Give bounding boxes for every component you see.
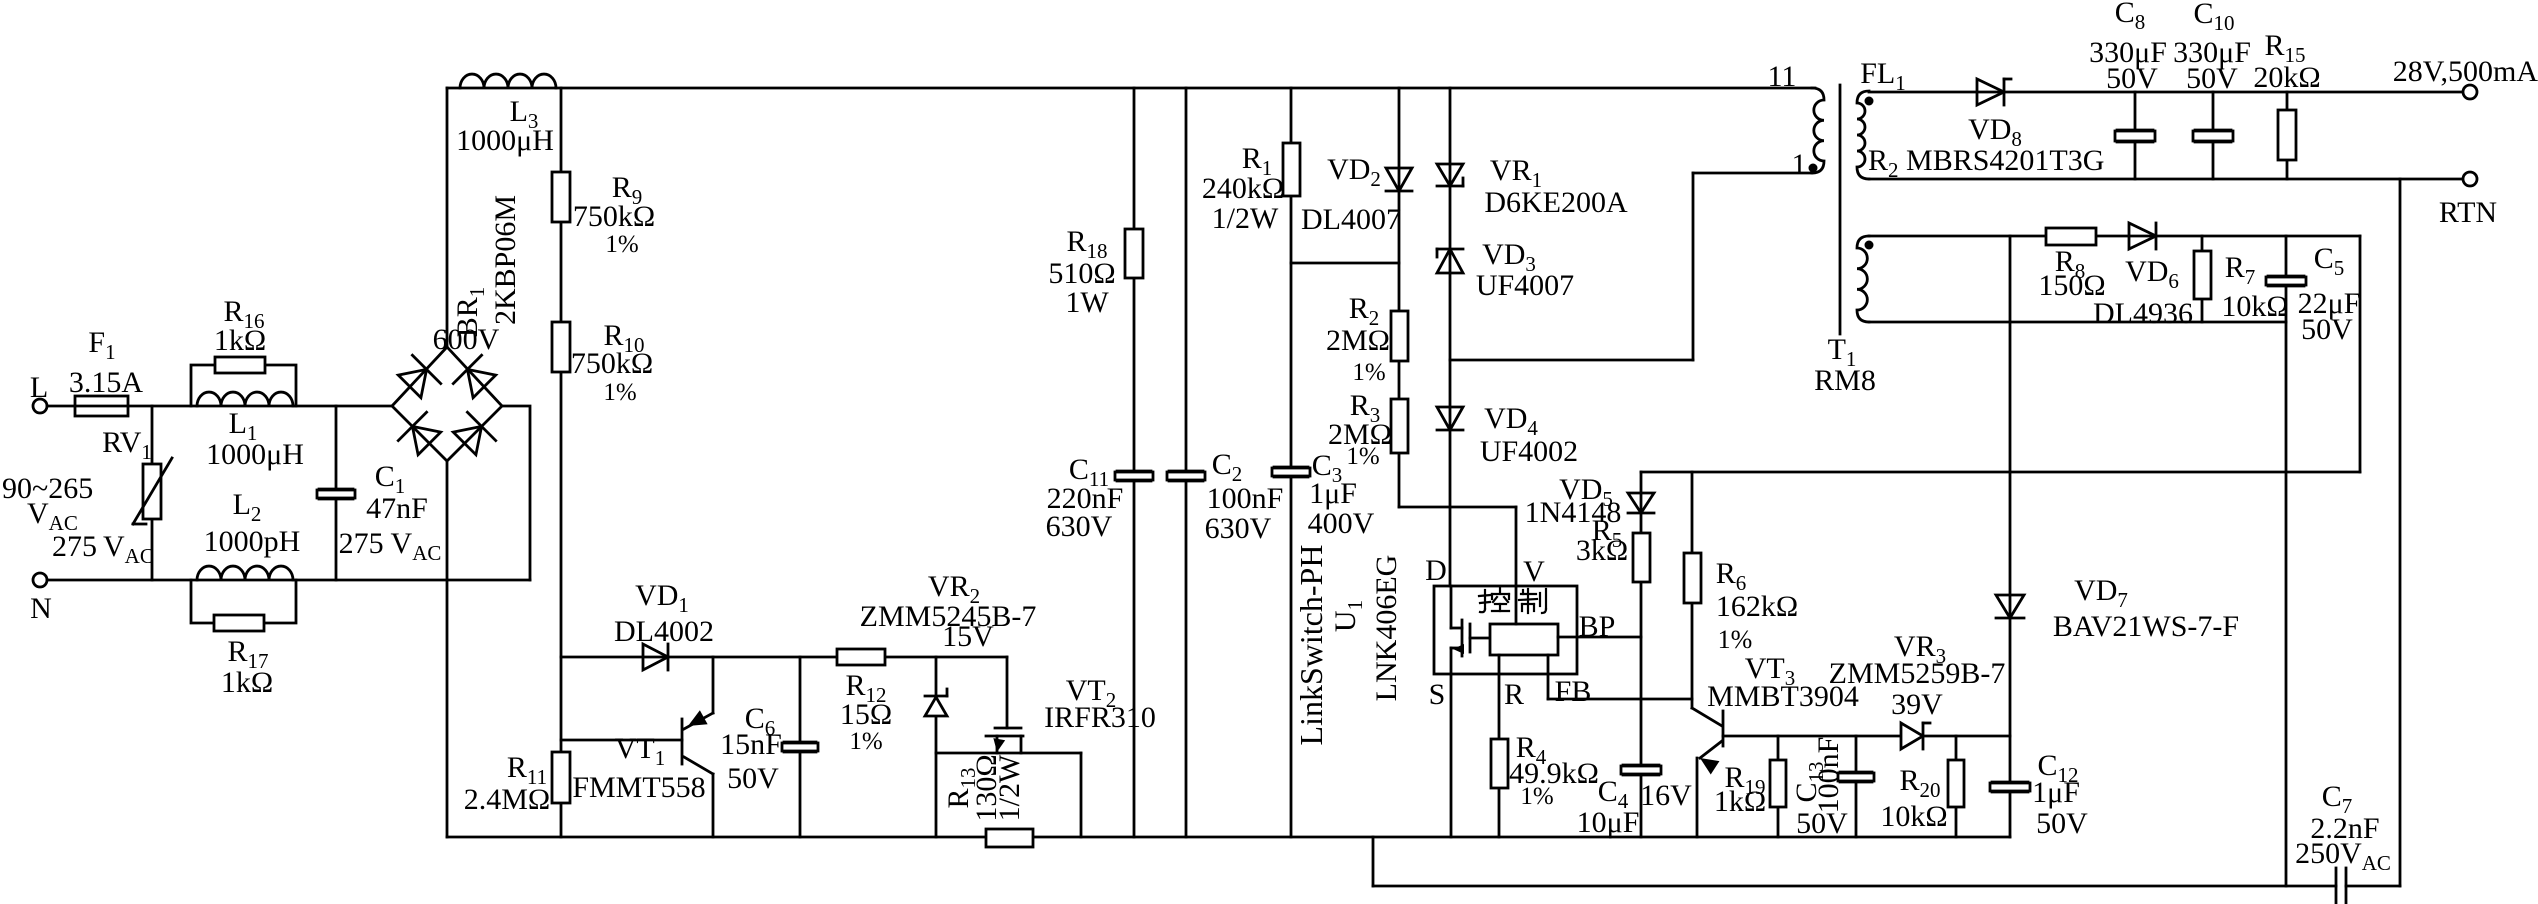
diode VD4 UF4002 [1437, 407, 1463, 430]
transformer FL1 secondary [1857, 91, 1869, 179]
wire C2 chain [1185, 88, 1188, 837]
svg-text:15nF: 15nF [720, 728, 782, 761]
svg-text:275 VAC​: 275 VAC​ [339, 527, 442, 565]
svg-text:2KBP06M: 2KBP06M [489, 195, 522, 325]
wire U1 R pin [1498, 655, 1501, 837]
wire VT1 base [561, 739, 682, 742]
bridge BR1 diodes [395, 355, 440, 400]
varistor RV1 [151, 406, 154, 580]
resistor R9 750k [552, 172, 570, 222]
diode VD7 BAV21WS [1996, 595, 2024, 618]
resistor R1 240k [1283, 143, 1300, 196]
wire U1 FB pin [1547, 655, 1550, 699]
svg-text:2MΩ: 2MΩ [1326, 324, 1390, 357]
svg-text:20kΩ: 20kΩ [2253, 61, 2320, 94]
svg-text:S: S [1429, 678, 1446, 711]
wire R6 chain [1691, 472, 1694, 708]
svg-text:C10​: C10​ [2193, 0, 2234, 35]
svg-text:50V: 50V [2106, 62, 2158, 95]
svg-text:1%: 1% [849, 728, 882, 755]
wire RTN drop [2399, 179, 2402, 886]
resistor R13 130 on rail [986, 829, 1033, 847]
svg-text:1kΩ: 1kΩ [221, 666, 273, 699]
svg-text:400V: 400V [1308, 507, 1375, 540]
svg-text:1000μH: 1000μH [456, 124, 554, 157]
mosfet VT2 IRFR310 [995, 727, 1021, 730]
node FL1 dot [1865, 97, 1874, 106]
wire N riser to bridge [502, 406, 530, 580]
capacitor C7 2.2nF Y-cap [2335, 868, 2338, 904]
capacitor C10 330uF [2212, 92, 2215, 179]
wire U1 BP pin [1558, 636, 1641, 639]
resistor R17 1k bypass [191, 580, 296, 623]
svg-text:RM8: RM8 [1814, 364, 1876, 397]
transistor VT3 MMBT3904 NPN [1722, 711, 1725, 746]
resistor R20 10k [1955, 736, 1958, 837]
capacitor C1 47nF X2 [335, 406, 338, 580]
svg-text:50V: 50V [727, 762, 779, 795]
svg-text:FL1​: FL1​ [1860, 57, 1906, 95]
svg-text:28V,500mA: 28V,500mA [2393, 55, 2538, 88]
svg-text:C2​: C2​ [1212, 448, 1243, 486]
svg-text:1000μH: 1000μH [206, 438, 304, 471]
wire bias top [1869, 235, 2360, 238]
svg-text:1kΩ: 1kΩ [1714, 785, 1766, 818]
svg-text:D6KE200A: D6KE200A [1484, 186, 1628, 219]
svg-text:240kΩ: 240kΩ [1202, 172, 1284, 205]
capacitor C13 100nF [1855, 736, 1858, 837]
diode VD8 MBRS4201T3G [1977, 79, 2004, 105]
svg-text:50V: 50V [1796, 807, 1848, 840]
svg-text:L2​: L2​ [233, 488, 262, 526]
transformer T1 primary [1812, 88, 1824, 173]
inductor L2 [197, 566, 293, 580]
svg-text:R: R [1504, 678, 1524, 711]
fuse F1 3.15A [75, 396, 128, 416]
svg-text:3.15A: 3.15A [69, 366, 144, 399]
svg-text:2.4MΩ: 2.4MΩ [464, 783, 550, 816]
resistor R2 2M [1391, 311, 1408, 361]
svg-text:1μF: 1μF [2032, 776, 2080, 809]
label U1 kongzhi-1 [1479, 588, 1509, 612]
wire feedback row [1641, 471, 2360, 474]
svg-text:1%: 1% [1520, 783, 1553, 810]
zener VR2 ZMM5245B [935, 657, 938, 837]
svg-text:100nF: 100nF [1812, 737, 1845, 814]
resistor R11 2.4M [552, 752, 570, 803]
wire VD3 node to pin1 [1450, 359, 1693, 362]
svg-text:162kΩ: 162kΩ [1716, 590, 1798, 623]
wire VR1 chain [1449, 88, 1452, 586]
resistor R6 162k [1684, 553, 1701, 603]
resistor R8 150 [2046, 228, 2096, 245]
resistor R5 3k [1633, 533, 1650, 582]
resistor R4 49.9k [1491, 739, 1508, 788]
svg-text:C8​: C8​ [2115, 0, 2146, 34]
capacitor C12 1uF [1990, 783, 2030, 791]
wire VD5 chain [1640, 472, 1643, 837]
svg-text:D: D [1425, 554, 1447, 587]
resistor R12 15 [837, 649, 885, 665]
bridge BR1 diamond [392, 347, 502, 461]
resistor R18 510 [1125, 229, 1143, 278]
svg-text:C5​: C5​ [2314, 242, 2345, 280]
wire R1 to VD2 node [1291, 262, 1399, 265]
svg-text:FMMT558: FMMT558 [572, 771, 705, 804]
svg-text:50V: 50V [2036, 807, 2088, 840]
svg-text:L: L [30, 371, 48, 404]
wire RTN line [1869, 178, 2463, 181]
svg-text:1%: 1% [1718, 625, 1753, 654]
svg-text:VD6​: VD6​ [2125, 255, 2179, 293]
capacitor C8 330uF [2134, 92, 2137, 179]
svg-text:U1​: U1​ [1329, 600, 1367, 632]
svg-text:630V: 630V [1046, 510, 1113, 543]
svg-text:R20​: R20​ [1899, 764, 1940, 802]
resistor R15 20k [2286, 92, 2289, 179]
wire R9 chain [560, 88, 563, 837]
svg-text:IRFR310: IRFR310 [1044, 701, 1156, 734]
capacitor C2 100nF [1167, 472, 1205, 480]
transformer core [1839, 85, 1842, 334]
svg-text:RV1​: RV1​ [102, 426, 152, 464]
ic U1 box [1434, 586, 1577, 674]
svg-text:F1​: F1​ [88, 326, 115, 364]
wire VT3 collector row [1723, 735, 1901, 738]
svg-text:1kΩ: 1kΩ [214, 324, 266, 357]
transformer bias winding [1857, 236, 1869, 322]
label U1 kongzhi-2 [1519, 589, 1546, 613]
capacitor C3 1uF [1272, 468, 1310, 476]
svg-text:LNK406EG: LNK406EG [1370, 555, 1403, 702]
svg-text:630V: 630V [1205, 512, 1272, 545]
svg-text:16V: 16V [1640, 779, 1692, 812]
svg-text:47nF: 47nF [366, 492, 428, 525]
svg-text:1W: 1W [1065, 286, 1109, 319]
output terminal RTN [2463, 172, 2477, 186]
svg-text:1%: 1% [1352, 359, 1385, 386]
wire N line [47, 579, 530, 582]
svg-text:11: 11 [1768, 60, 1797, 93]
transistor VT1 FMMT558 PNP [681, 719, 684, 764]
wire lower rail [1373, 885, 2336, 888]
capacitor C5 22uF [2285, 236, 2288, 886]
svg-text:1/2W: 1/2W [993, 754, 1026, 821]
resistor R7 10k [2201, 236, 2204, 322]
svg-text:10kΩ: 10kΩ [2221, 290, 2288, 323]
svg-text:V: V [1523, 555, 1545, 588]
svg-text:1%: 1% [605, 231, 638, 258]
svg-text:100nF: 100nF [1207, 482, 1284, 515]
svg-text:DL4007: DL4007 [1301, 203, 1401, 236]
svg-text:DL4936: DL4936 [2093, 297, 2193, 330]
svg-text:VD1​: VD1​ [635, 579, 689, 617]
wire VT2 source row [936, 752, 1081, 755]
svg-text:BAV21WS-7-F: BAV21WS-7-F [2053, 610, 2239, 643]
wire R1 C3 chain [1290, 88, 1293, 837]
capacitor C4 10uF [1621, 766, 1661, 774]
diode VD3 UF4007 [1437, 249, 1463, 273]
wire bias bottom [1869, 321, 2286, 324]
svg-text:DL4002: DL4002 [614, 615, 714, 648]
node primary dot [1809, 164, 1818, 173]
svg-text:R7​: R7​ [2225, 251, 2256, 289]
wire output top [1869, 91, 2463, 94]
svg-text:R2​ MBRS4201T3G: R2​ MBRS4201T3G [1868, 144, 2104, 182]
inductor L1 1000uH [197, 392, 293, 406]
wire bias box right edge [2359, 236, 2362, 472]
svg-text:750kΩ: 750kΩ [573, 200, 655, 233]
ic U1 internal mosfet [1450, 586, 1453, 628]
svg-text:UF4002: UF4002 [1480, 435, 1578, 468]
diode VD1 DL4002 [643, 644, 668, 670]
wire bridge minus drop [446, 461, 449, 837]
wire U1 V internal [1515, 586, 1518, 624]
wire bottom rail [447, 836, 2010, 839]
svg-text:3kΩ: 3kΩ [1576, 534, 1628, 567]
L input terminal [33, 399, 47, 413]
diode VD5 1N4148 [1628, 493, 1654, 513]
resistor R10 750k [552, 322, 570, 372]
svg-text:1000pH: 1000pH [204, 525, 301, 558]
svg-text:1/2W: 1/2W [1212, 202, 1279, 235]
output terminal 28V [2463, 85, 2477, 99]
svg-text:750kΩ: 750kΩ [571, 347, 653, 380]
svg-text:1%: 1% [603, 379, 636, 406]
wire rail step [1372, 837, 1375, 886]
N input terminal [33, 573, 47, 587]
svg-text:50V: 50V [2186, 62, 2238, 95]
wire bridge plus riser [446, 88, 449, 347]
svg-text:FB: FB [1555, 675, 1592, 708]
svg-text:10μF: 10μF [1577, 806, 1640, 839]
diode VD2 DL4007 [1386, 168, 1412, 191]
svg-text:N: N [30, 592, 52, 625]
wire U1 S pin [1450, 674, 1453, 837]
svg-text:15Ω: 15Ω [840, 698, 892, 731]
node bias dot [1865, 241, 1874, 250]
wire top rail [447, 87, 1815, 90]
svg-text:1%: 1% [1346, 443, 1379, 470]
inductor L3 1000uH [460, 74, 556, 88]
capacitor C11 220nF [1115, 472, 1153, 480]
svg-text:VT1​: VT1​ [615, 732, 666, 770]
wire VD1 row [561, 656, 1007, 659]
svg-text:1μF: 1μF [1309, 477, 1357, 510]
svg-text:600V: 600V [433, 323, 500, 356]
wire VD2 chain [1398, 88, 1401, 507]
wire VD7 chain [2009, 236, 2012, 837]
svg-text:10kΩ: 10kΩ [1880, 800, 1947, 833]
svg-text:RTN: RTN [2439, 196, 2497, 229]
svg-text:VD2​: VD2​ [1327, 153, 1381, 191]
ic U1 controller box [1490, 624, 1558, 655]
svg-text:LinkSwitch-PH: LinkSwitch-PH [1293, 545, 1329, 746]
svg-text:1: 1 [1792, 148, 1807, 181]
capacitor C6 15nF [799, 657, 802, 837]
svg-text:275 VAC​: 275 VAC​ [52, 530, 154, 568]
tvs VR1 D6KE200A [1437, 164, 1463, 186]
wire L line [47, 405, 392, 408]
svg-text:ZMM5259B-7: ZMM5259B-7 [1829, 657, 2006, 690]
svg-text:50V: 50V [2301, 313, 2353, 346]
svg-text:39V: 39V [1891, 688, 1943, 721]
wire R18 C11 chain [1133, 88, 1136, 837]
svg-text:VD7​: VD7​ [2074, 574, 2128, 612]
resistor R3 2M [1391, 399, 1408, 453]
svg-text:UF4007: UF4007 [1476, 269, 1574, 302]
resistor R16 1k bypass [191, 365, 296, 406]
svg-text:15V: 15V [942, 620, 994, 653]
diode VD6 DL4936 [2129, 223, 2156, 249]
zener VR3 ZMM5259B [1901, 723, 1923, 749]
resistor R19 1k [1777, 736, 1780, 837]
wire R3 to V pin [1399, 506, 1516, 509]
